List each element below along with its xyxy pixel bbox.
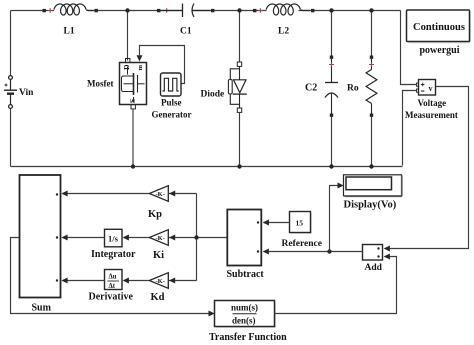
wire add output to subtract: [264, 251, 363, 253]
node C2-top: [329, 8, 333, 12]
inductor L2: [253, 4, 314, 15]
svg-text:Δt: Δt: [109, 283, 116, 290]
wire diode bottom: [239, 113, 241, 166]
wire VM minus to bus: [403, 91, 417, 166]
svg-text:Reference: Reference: [282, 239, 322, 249]
wire bottom bus: [11, 166, 403, 168]
svg-text:Integrator: Integrator: [91, 249, 136, 260]
svg-text:Continuous: Continuous: [413, 22, 465, 33]
voltage measurement VM: [417, 80, 436, 96]
node pid branch: [194, 235, 198, 239]
svg-text:Derivative: Derivative: [89, 292, 134, 303]
svg-text:Voltage: Voltage: [418, 98, 447, 108]
wire Kd row: [124, 280, 150, 282]
node Ro-top: [369, 8, 373, 12]
wire pid branch vertical: [196, 194, 198, 281]
svg-text:S: S: [128, 99, 137, 103]
wire sum output to transfer function: [11, 238, 210, 314]
svg-text:Pulse: Pulse: [161, 97, 182, 107]
svg-text:Transfer Function: Transfer Function: [209, 332, 287, 343]
subtract block: [227, 210, 261, 266]
inductor L1: [43, 4, 98, 15]
wire diode top: [239, 13, 241, 63]
svg-text:num(s): num(s): [231, 303, 258, 313]
svg-text:Kp: Kp: [148, 209, 162, 220]
node mosfet-bus: [131, 164, 135, 168]
wire top-right to VM plus: [401, 11, 417, 85]
svg-text:m: m: [137, 64, 144, 70]
wire TF output to add: [275, 257, 397, 314]
svg-text:Sum: Sum: [32, 303, 52, 314]
svg-text:15: 15: [296, 218, 304, 227]
powergui block: [407, 10, 472, 44]
wire mosfet source to bus: [132, 109, 134, 166]
wire top bus segment 4: [299, 10, 401, 12]
svg-text:v: v: [429, 84, 433, 93]
add block: [363, 245, 383, 261]
svg-text:Measurement: Measurement: [405, 110, 458, 120]
node C2-bus: [329, 164, 333, 168]
wire top bus segment 3: [192, 10, 267, 12]
junction mosfet drain: [125, 8, 129, 12]
derivative block: [105, 270, 123, 291]
gain Kp: [149, 186, 168, 202]
wire gate from pulse generator: [140, 46, 185, 84]
svg-text:D: D: [122, 64, 131, 70]
resistor Ro: [366, 13, 377, 166]
svg-text:Subtract: Subtract: [227, 269, 265, 280]
wire VM output to Add: [385, 87, 469, 249]
integrator block: [105, 229, 123, 247]
svg-text:Generator: Generator: [152, 109, 192, 119]
node diode-bus: [237, 164, 241, 168]
svg-text:C2: C2: [305, 83, 317, 94]
node diode-top: [237, 8, 241, 12]
mosfet M1: [120, 59, 147, 109]
svg-text:powergui: powergui: [420, 45, 460, 56]
svg-text:L2: L2: [278, 27, 289, 37]
node display branch: [327, 249, 331, 253]
svg-text:-K-: -K-: [156, 235, 165, 242]
svg-text:-K-: -K-: [156, 191, 165, 198]
wire Kp row: [63, 193, 150, 195]
svg-text:Vin: Vin: [19, 88, 34, 98]
wire mosfet drain: [127, 13, 129, 61]
gain Kd: [149, 273, 168, 289]
display block: [344, 175, 403, 197]
svg-text:C1: C1: [180, 27, 192, 37]
wire reference to subtract: [264, 222, 290, 224]
reference block: [290, 212, 313, 235]
wire Ki row: [124, 237, 150, 239]
svg-text:Display(Vo): Display(Vo): [344, 200, 397, 211]
capacitor C2: [325, 13, 338, 166]
node Ro-bus: [369, 164, 373, 168]
wire to display: [330, 186, 339, 252]
svg-text:L1: L1: [64, 27, 75, 37]
voltage source Vin: [4, 76, 17, 109]
svg-text:Add: Add: [365, 263, 383, 273]
svg-text:-K-: -K-: [156, 278, 165, 285]
svg-text:Mosfet: Mosfet: [87, 79, 114, 89]
svg-text:Ro: Ro: [347, 84, 359, 94]
svg-text:Ki: Ki: [153, 250, 164, 261]
svg-text:Diode: Diode: [201, 90, 225, 100]
svg-text:den(s): den(s): [232, 315, 256, 325]
svg-text:1/s: 1/s: [108, 234, 119, 244]
wire left bus: [10, 14, 12, 76]
svg-text:Δu: Δu: [109, 273, 117, 280]
wire top bus segment 1: [14, 10, 55, 12]
pulse generator PG: [161, 73, 182, 96]
svg-text:Kd: Kd: [151, 292, 165, 303]
wire top bus segment 2: [87, 10, 182, 12]
transfer function block: [215, 301, 277, 329]
sum block S1: [20, 175, 61, 298]
diode D1: [228, 62, 246, 112]
gain Ki: [149, 230, 168, 246]
capacitor C1: [157, 4, 214, 18]
